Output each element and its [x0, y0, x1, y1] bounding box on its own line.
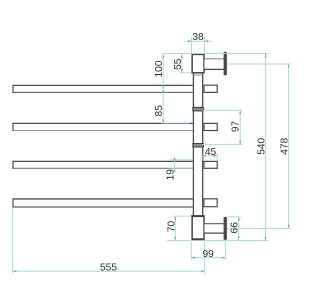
svg-text:97: 97 — [230, 121, 241, 133]
pivot stub 2 — [204, 123, 217, 130]
svg-text:38: 38 — [192, 32, 204, 43]
arrows 100 — [162, 54, 164, 58]
ext line: flange top (66) — [227, 216, 241, 218]
pivot stub 3 — [204, 161, 217, 168]
svg-text:99: 99 — [203, 249, 215, 260]
arrows 540 — [265, 54, 267, 58]
ext line: bottom arm centre (478 bottom) — [227, 227, 291, 229]
top wall arm — [205, 59, 224, 70]
svg-text:45: 45 — [205, 147, 217, 158]
bottom wall arm — [205, 224, 224, 234]
ext line: bottom block top left (70) — [174, 215, 192, 217]
ext line: 45 left (post right edge) — [201, 153, 203, 160]
dim line 97 — [239, 110, 241, 144]
svg-text:19: 19 — [166, 169, 177, 181]
towel bar 4 (bottom swing rail) — [12, 198, 193, 207]
dim line 99 — [191, 257, 225, 259]
svg-text:478: 478 — [280, 137, 291, 154]
ext line: top arm centre (478 top) — [227, 63, 291, 65]
dimension texts — [100, 32, 291, 273]
ext line: collar A bottom (97 top) — [202, 109, 242, 111]
towel bar 2 — [12, 123, 193, 131]
ext line: block bottom left (55) — [180, 72, 192, 74]
bottom mounting block — [192, 216, 204, 240]
svg-text:555: 555 — [100, 262, 117, 273]
swivel collar A — [193, 107, 204, 111]
arrows 66 — [238, 217, 240, 221]
dim line 66 — [238, 217, 240, 240]
ext line: 555 left (bar end, below) — [12, 209, 14, 274]
dim line 540 — [265, 54, 267, 241]
ext line: 99 right (flange outer, below) — [224, 241, 226, 260]
bottom wall flange — [224, 217, 227, 240]
arrows 99 — [191, 257, 195, 259]
pivot stub 1 (rail end right of post) — [204, 85, 217, 92]
ext line: 555 right (block right, below) — [204, 242, 206, 275]
dimension arrowheads — [13, 40, 290, 272]
arrows 555 — [13, 270, 17, 272]
bottom block top band — [191, 215, 204, 217]
swivel collar B — [193, 144, 204, 148]
svg-text:70: 70 — [166, 221, 177, 233]
post neck shading under top block — [193, 74, 202, 76]
ext line: 45 right (stub tip) — [216, 153, 218, 160]
dim line 45 — [202, 155, 217, 157]
ext line: 99 left (block left, below) — [190, 242, 192, 260]
dim line 19 (through bar 3) — [174, 157, 176, 172]
arrows 70 — [174, 216, 176, 220]
dim line 478 — [288, 64, 290, 228]
towel bar 3 — [12, 161, 193, 169]
svg-text:540: 540 — [257, 137, 268, 154]
svg-text:55: 55 — [173, 58, 184, 70]
ext line: bar3 top (19) — [170, 159, 193, 161]
arrows 55 — [181, 54, 183, 58]
ext line: 38 left — [191, 38, 193, 54]
towel bar 1 (top swing rail, side view) — [12, 85, 193, 93]
arrows 85 — [162, 89, 164, 93]
dim line 555 — [13, 270, 205, 272]
svg-text:85: 85 — [154, 105, 165, 117]
dim line 70 — [174, 216, 176, 240]
arrows 478 — [288, 64, 290, 68]
ext line: block bottom level right (540/66 bottom) — [203, 240, 268, 242]
bottom block end cap — [192, 238, 203, 240]
ext line: bottom block bottom left (70) — [167, 240, 191, 242]
arrows 38 (outside pair) — [188, 40, 192, 42]
dim line 55 — [181, 54, 183, 73]
top wall flange — [224, 52, 227, 75]
svg-text:100: 100 — [154, 60, 165, 77]
ext line: block top level (long, for 55/100/540) — [163, 53, 268, 55]
arrows 97 — [239, 110, 241, 114]
ext line: collar B bottom (97 bottom) — [202, 143, 242, 145]
ext line: bar3 bottom (19) — [170, 167, 193, 169]
dim line 38 — [184, 40, 212, 42]
vertical post — [193, 74, 204, 216]
arrows 19 (outside pair) — [174, 158, 176, 161]
arrows 45 — [202, 155, 206, 157]
dim line 100 + 85 (continuous stack) — [162, 54, 164, 123]
ext line: bar2 top (85 bottom) — [161, 122, 190, 124]
top mounting block — [192, 54, 204, 72]
ext line: 38 right — [204, 38, 206, 54]
svg-text:66: 66 — [230, 222, 241, 234]
pivot stub 4 — [204, 199, 217, 207]
